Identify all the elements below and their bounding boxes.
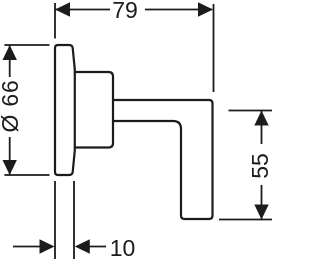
escutcheon plate outline <box>55 45 75 175</box>
arrowhead dim10 left <box>75 239 90 253</box>
dim79 extension line right <box>213 4 215 92</box>
arrowhead dim66 up <box>3 45 17 60</box>
lever handle <box>113 100 213 219</box>
dim55 line upper segment <box>261 111 263 145</box>
dim10 extension line left <box>54 181 56 259</box>
svg-text:Ø 66: Ø 66 <box>0 79 23 132</box>
dim55 extension line top <box>229 110 273 112</box>
arrowhead dim79 left <box>55 2 70 16</box>
dim79 line right segment <box>145 9 212 11</box>
hub boss <box>75 72 113 148</box>
dim10 extension line right <box>73 181 75 259</box>
dim66 extension line bottom <box>4 174 49 176</box>
dim10 tail line right <box>88 246 106 248</box>
arrowhead dim79 right <box>198 2 213 16</box>
arrowhead dim10 right <box>40 239 55 253</box>
dim79 line left segment <box>55 9 110 11</box>
dim55 line lower segment <box>261 185 263 220</box>
svg-text:55: 55 <box>247 153 273 179</box>
svg-text:10: 10 <box>110 235 136 260</box>
dim66 line upper segment <box>9 45 11 77</box>
dim10 tail line left <box>13 246 41 248</box>
dim66 extension line top <box>4 44 49 46</box>
dim66 line lower segment <box>9 137 11 175</box>
dim79 extension line left <box>54 3 56 39</box>
svg-text:79: 79 <box>112 0 138 23</box>
arrowhead dim55 up <box>254 111 268 126</box>
dim55 extension line bottom <box>219 219 272 221</box>
arrowhead dim55 down <box>254 205 268 220</box>
arrowhead dim66 down <box>3 160 17 175</box>
